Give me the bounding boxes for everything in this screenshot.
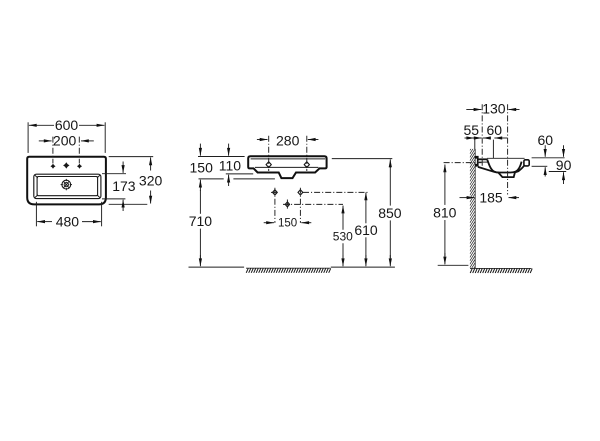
dimension 480 extension lines: [36, 202, 101, 227]
extension line 110 bottom: [226, 173, 253, 175]
basin side profile: bowl section: [487, 160, 521, 173]
centreline tap hole left: [52, 137, 54, 164]
svg-text:60: 60: [538, 132, 554, 148]
svg-text:173: 173: [112, 178, 136, 194]
svg-text:280: 280: [276, 133, 300, 149]
dim 150 left top arrow: [199, 144, 201, 156]
extension line 60 right bottom: [532, 165, 548, 167]
basin outer outline (top view): [27, 157, 106, 205]
extension line 90 bottom: [549, 171, 566, 173]
drain hole (front): [285, 202, 289, 207]
basin front rim inner line: [251, 158, 326, 160]
dimension 173: [112, 162, 136, 212]
floor hatch (side view): [470, 268, 532, 273]
svg-text:530: 530: [333, 230, 353, 244]
dimension 810: [433, 165, 457, 265]
basin side profile: rim inner ledge: [479, 161, 489, 163]
extension line basin top left: [198, 156, 245, 158]
svg-text:60: 60: [487, 122, 503, 138]
dimension 600 extension lines: [28, 122, 105, 153]
centreline fixing hole left (front): [268, 136, 270, 171]
dimension 150 lower: [264, 218, 312, 230]
dim 110 top arrow: [228, 144, 230, 156]
centreline fixing plane (side): [481, 104, 483, 168]
basin side profile: wall bracket: [475, 156, 479, 167]
dimension 60 right: [538, 132, 554, 177]
svg-text:150: 150: [278, 218, 297, 230]
svg-text:110: 110: [219, 158, 242, 174]
dim 110 bottom arrow: [228, 175, 230, 186]
centreline lower fixing right vertical: [299, 188, 301, 223]
extension line 850 top: [332, 158, 393, 160]
basin side profile: front lip roll: [524, 160, 529, 166]
extension line rim top right: [532, 157, 565, 159]
svg-text:480: 480: [56, 214, 80, 230]
dimension 280: [257, 133, 319, 149]
text 110: [219, 158, 242, 174]
svg-text:810: 810: [433, 205, 457, 221]
basin front profile: [248, 156, 326, 178]
dimension 610: [354, 193, 378, 267]
dimension 130: [466, 101, 519, 117]
basin inner bowl inner rim (top view): [37, 177, 98, 196]
svg-text:90: 90: [556, 157, 572, 173]
basin front mid line: [255, 166, 318, 168]
basin side profile: underside and drain boss: [478, 167, 515, 177]
basin side profile: rim elevation line: [487, 157, 525, 159]
extension line 150 bottom / 710 top: [199, 178, 275, 180]
dimension 320 extension lines: [109, 157, 154, 205]
centreline drain vertical tick: [286, 200, 288, 210]
lower fixing hole right (front): [298, 190, 303, 195]
centreline tap hole right: [78, 137, 80, 164]
drain symbol (plan): [61, 179, 72, 190]
svg-text:185: 185: [479, 190, 503, 206]
bowl corner ticks: [35, 175, 100, 198]
svg-text:200: 200: [53, 133, 77, 149]
centreline 810 horizontal (side): [444, 162, 482, 164]
svg-text:320: 320: [139, 173, 163, 189]
centreline drain plane (side): [507, 104, 509, 194]
tap hole centre (plan): [63, 162, 69, 168]
svg-text:610: 610: [354, 222, 378, 238]
wall fixing hole left (front): [266, 162, 271, 168]
wall fixing hole right (front): [304, 162, 309, 168]
dimension 600: [29, 117, 105, 133]
wall hatch: [470, 142, 475, 274]
svg-text:850: 850: [378, 205, 402, 221]
dimension 90: [556, 145, 572, 184]
wall surface extension line up: [474, 139, 476, 150]
tap hole axis line (side): [492, 140, 494, 159]
tap hole right (plan): [77, 164, 82, 169]
dimension 200: [39, 133, 94, 149]
svg-text:150: 150: [190, 160, 214, 176]
dim 150 left bottom arrow / 710 line: [199, 180, 201, 267]
centreline lower fixing left vertical: [274, 188, 276, 223]
dimension 530: [333, 206, 353, 267]
dimension 173 extension lines: [102, 174, 126, 199]
dimension 480: [37, 214, 101, 230]
basin side profile: rim section edge: [478, 158, 488, 160]
centreline fixing row horizontal to 610: [303, 191, 368, 193]
dimension 55: [464, 122, 491, 138]
text 150 left: [190, 160, 214, 176]
lower fixing hole left (front): [273, 190, 278, 195]
svg-text:55: 55: [464, 122, 480, 138]
text 710: [189, 213, 213, 229]
floor hatch (front view): [246, 268, 331, 273]
svg-text:600: 600: [55, 117, 79, 133]
dimension 320: [139, 157, 163, 203]
dimension 60 top: [478, 122, 507, 138]
basin side profile: front outer face: [515, 165, 525, 172]
extension line 810 floor: [438, 264, 469, 266]
dimension 185: [460, 190, 520, 206]
centreline lower fixing left horizontal tick: [271, 191, 279, 193]
centreline drain horizontal to 530: [283, 203, 343, 205]
basin inner bowl outer rim (top view): [34, 174, 101, 198]
svg-text:710: 710: [189, 213, 213, 229]
tap hole left (plan): [50, 164, 55, 169]
centreline fixing hole right (front): [306, 136, 308, 171]
svg-text:130: 130: [482, 101, 506, 117]
floor line (front view): [189, 266, 395, 268]
dimension 850: [378, 159, 402, 266]
